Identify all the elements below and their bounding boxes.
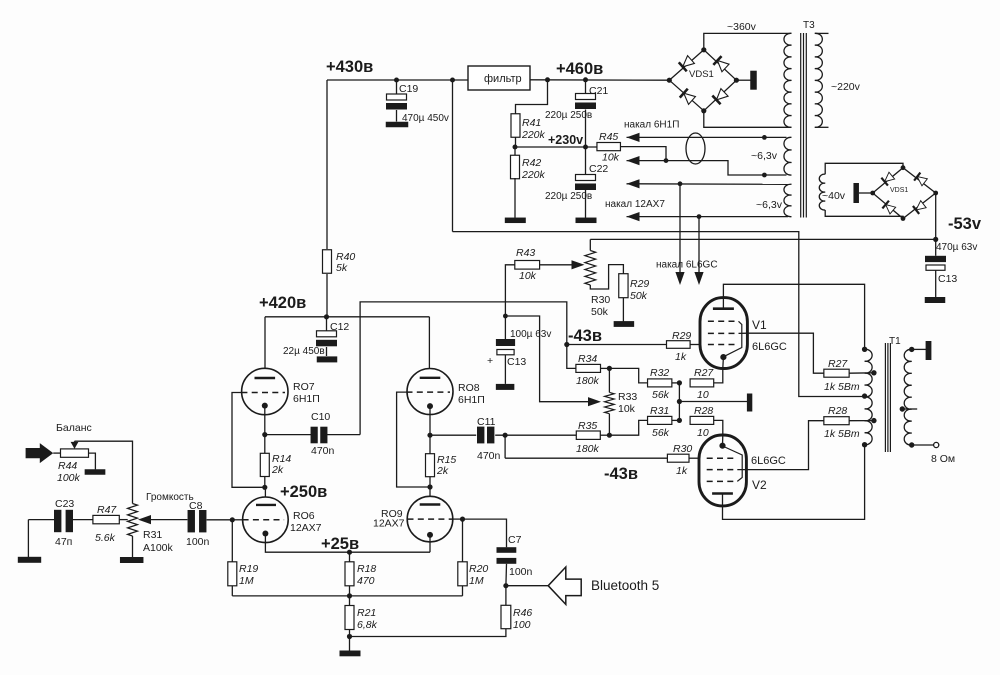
svg-text:C7: C7 xyxy=(508,534,522,546)
svg-text:+250в: +250в xyxy=(280,483,327,501)
svg-text:100n: 100n xyxy=(509,566,533,578)
svg-text:R21: R21 xyxy=(357,607,376,619)
svg-text:50k: 50k xyxy=(591,306,609,318)
svg-text:C19: C19 xyxy=(399,83,418,95)
svg-text:+230v: +230v xyxy=(548,133,583,147)
svg-text:10: 10 xyxy=(697,389,709,401)
svg-text:100n: 100n xyxy=(186,536,210,548)
svg-text:R28: R28 xyxy=(828,405,847,417)
svg-text:V2: V2 xyxy=(752,478,767,492)
svg-text:2k: 2k xyxy=(436,465,449,477)
svg-text:A100k: A100k xyxy=(143,542,174,554)
svg-text:470: 470 xyxy=(357,575,375,587)
svg-text:R45: R45 xyxy=(599,131,618,143)
svg-text:R29: R29 xyxy=(630,278,649,290)
svg-text:12AX7: 12AX7 xyxy=(373,518,405,530)
svg-text:1k: 1k xyxy=(675,351,687,363)
svg-text:10k: 10k xyxy=(618,403,636,415)
svg-text:470µ 63v: 470µ 63v xyxy=(936,242,977,253)
svg-text:RO6: RO6 xyxy=(293,510,315,522)
svg-text:R41: R41 xyxy=(522,117,541,129)
svg-text:R47: R47 xyxy=(97,504,117,516)
svg-text:R28: R28 xyxy=(694,405,713,417)
svg-text:VDS1: VDS1 xyxy=(890,187,908,194)
svg-text:R30: R30 xyxy=(591,294,610,306)
svg-text:R31: R31 xyxy=(143,529,162,541)
svg-text:~6,3v: ~6,3v xyxy=(756,199,783,211)
svg-text:22µ 450в: 22µ 450в xyxy=(283,346,325,357)
svg-text:220k: 220k xyxy=(521,129,546,141)
svg-text:накал 6L6GC: накал 6L6GC xyxy=(656,260,718,271)
svg-text:1M: 1M xyxy=(239,575,254,587)
svg-text:RO8: RO8 xyxy=(458,382,480,394)
svg-text:50k: 50k xyxy=(630,290,648,302)
svg-text:-43в: -43в xyxy=(604,465,638,483)
svg-text:RO7: RO7 xyxy=(293,381,315,393)
svg-text:-53v: -53v xyxy=(948,215,982,233)
svg-text:R44: R44 xyxy=(58,460,77,472)
svg-text:10k: 10k xyxy=(602,152,620,164)
svg-text:180k: 180k xyxy=(576,443,600,455)
svg-text:T3: T3 xyxy=(803,20,815,31)
svg-text:R31: R31 xyxy=(650,405,669,417)
svg-text:C11: C11 xyxy=(477,416,496,428)
svg-text:470µ 450v: 470µ 450v xyxy=(402,113,449,124)
svg-text:+420в: +420в xyxy=(259,294,306,312)
svg-text:C8: C8 xyxy=(189,500,203,512)
svg-text:100: 100 xyxy=(513,619,531,631)
svg-text:R32: R32 xyxy=(650,367,669,379)
svg-text:T1: T1 xyxy=(889,336,901,347)
svg-text:100µ 63v: 100µ 63v xyxy=(510,329,551,340)
svg-text:12AX7: 12AX7 xyxy=(290,522,322,534)
svg-text:~220v: ~220v xyxy=(831,81,861,93)
svg-text:VDS1: VDS1 xyxy=(689,69,714,80)
svg-text:470n: 470n xyxy=(311,445,335,457)
svg-text:накал 12АХ7: накал 12АХ7 xyxy=(605,199,665,210)
svg-text:~40v: ~40v xyxy=(822,190,846,202)
svg-text:C23: C23 xyxy=(55,498,74,510)
svg-text:Громкость: Громкость xyxy=(146,492,194,503)
svg-text:8 Ом: 8 Ом xyxy=(931,453,955,465)
svg-text:+430в: +430в xyxy=(326,58,373,76)
svg-text:6Н1П: 6Н1П xyxy=(293,393,320,405)
svg-text:C21: C21 xyxy=(589,85,608,97)
svg-text:6,8k: 6,8k xyxy=(357,619,378,631)
svg-text:180k: 180k xyxy=(576,375,600,387)
svg-text:R18: R18 xyxy=(357,563,376,575)
svg-text:R35: R35 xyxy=(578,420,597,432)
svg-text:Баланс: Баланс xyxy=(56,422,92,434)
svg-text:6L6GC: 6L6GC xyxy=(751,455,786,467)
svg-text:+: + xyxy=(487,355,493,367)
svg-text:5k: 5k xyxy=(336,262,348,274)
svg-text:C12: C12 xyxy=(330,321,349,333)
svg-text:1k 5Вт: 1k 5Вт xyxy=(824,381,860,393)
svg-text:6Н1П: 6Н1П xyxy=(458,394,485,406)
svg-text:R34: R34 xyxy=(578,353,597,365)
svg-text:R20: R20 xyxy=(469,563,488,575)
svg-text:R19: R19 xyxy=(239,563,258,575)
svg-text:6L6GC: 6L6GC xyxy=(752,341,787,353)
svg-text:R30: R30 xyxy=(673,443,692,455)
svg-text:470n: 470n xyxy=(477,450,501,462)
svg-text:+25в: +25в xyxy=(321,535,359,553)
svg-text:1k: 1k xyxy=(676,465,688,477)
svg-text:56k: 56k xyxy=(652,427,670,439)
svg-text:10k: 10k xyxy=(519,270,537,282)
svg-text:220k: 220k xyxy=(521,169,546,181)
svg-text:5.6k: 5.6k xyxy=(95,532,116,544)
svg-text:1M: 1M xyxy=(469,575,484,587)
svg-text:~360v: ~360v xyxy=(727,21,757,33)
svg-text:+460в: +460в xyxy=(556,60,603,78)
svg-text:10: 10 xyxy=(697,427,709,439)
svg-text:R43: R43 xyxy=(516,247,535,259)
svg-text:R29: R29 xyxy=(672,330,691,342)
svg-text:R27: R27 xyxy=(828,358,848,370)
svg-text:2k: 2k xyxy=(271,464,284,476)
svg-text:220µ 250в: 220µ 250в xyxy=(545,191,592,202)
svg-text:накал 6Н1П: накал 6Н1П xyxy=(624,120,679,131)
svg-text:C13: C13 xyxy=(938,273,957,285)
svg-text:фильтр: фильтр xyxy=(484,73,522,85)
svg-text:R46: R46 xyxy=(513,607,532,619)
svg-text:47п: 47п xyxy=(55,536,72,548)
svg-text:100k: 100k xyxy=(57,472,81,484)
svg-text:1k 5Вт: 1k 5Вт xyxy=(824,428,860,440)
svg-text:C13: C13 xyxy=(507,356,526,368)
svg-text:C10: C10 xyxy=(311,411,330,423)
svg-text:R42: R42 xyxy=(522,157,541,169)
svg-text:R27: R27 xyxy=(694,367,714,379)
svg-text:56k: 56k xyxy=(652,389,670,401)
svg-text:R33: R33 xyxy=(618,391,637,403)
svg-text:~6,3v: ~6,3v xyxy=(751,150,778,162)
svg-text:V1: V1 xyxy=(752,318,767,332)
svg-text:220µ 250в: 220µ 250в xyxy=(545,110,592,121)
svg-text:-43в: -43в xyxy=(568,327,602,345)
svg-text:Bluetooth 5: Bluetooth 5 xyxy=(591,578,659,593)
svg-text:C22: C22 xyxy=(589,163,608,175)
